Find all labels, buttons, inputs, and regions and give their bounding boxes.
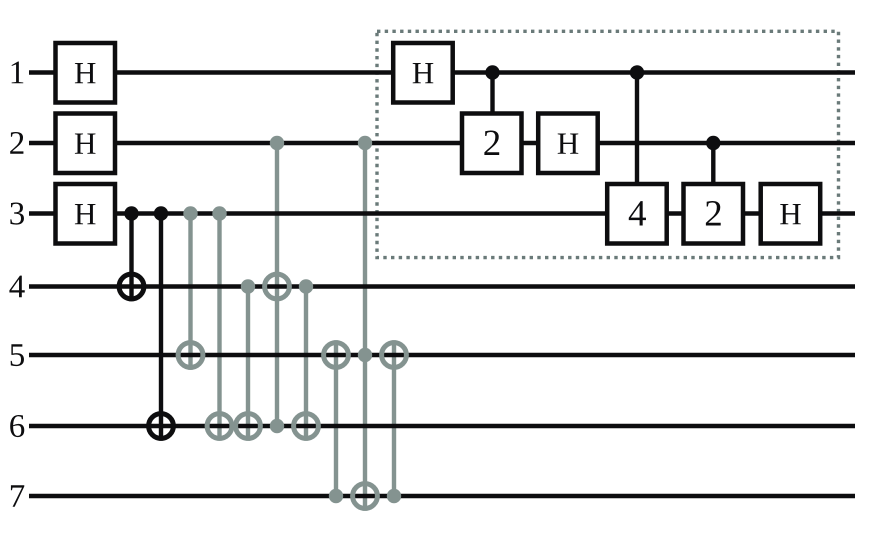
qubit wire 5 [29,353,855,357]
dotted box (inverse QFT block) [377,31,839,257]
gate H q1 left [56,43,116,103]
wire c5 vertical gray (q4-q6) [246,287,250,441]
cnot target gray q5 [178,343,203,368]
gate H q1 in box [393,43,453,103]
gate R4 q3 [607,184,667,244]
control dot gray q4 c5 [241,279,255,293]
qubit wire 6 [29,424,855,428]
label qubit 7 [11,485,24,507]
qubit wire 2 [29,141,855,145]
control dot gray q3 c4 [212,206,226,220]
control dot black q2 c13 [706,136,720,150]
control dot black q1 c11 [485,65,499,79]
cnot target gray q6 c4 [207,414,232,439]
label qubit 1 [12,62,24,84]
control dot gray q7 c10 [387,489,401,503]
wire c10 vertical gray (q5-q7) [392,340,396,496]
wire c2 vertical (CNOT q3-q6) [159,214,163,441]
qubit wire 7 [29,494,855,498]
wire c4 vertical gray (q3-q6) [217,214,221,441]
cnot target gray q7 c9 [353,484,378,509]
gate R2 q2 [462,114,522,174]
wire c8 vertical gray (q5-q7) [334,340,338,496]
cnot target gray q5 c10 [382,343,407,368]
control dot gray q6 c6 [270,419,284,433]
gate R2 q3 [684,184,744,244]
gate H q3 left [56,184,116,244]
label qubit 4 [9,276,24,298]
control dot gray q4 c7 [299,279,313,293]
wire c13 vertical (q2 control to R2 box) [711,143,715,182]
control dot gray q2 c9 [358,136,372,150]
wire c6 vertical gray (q2-q6) [275,143,279,426]
cnot target black q6 [149,414,174,439]
cnot target gray q6 c7 [294,414,319,439]
label qubit 2 [10,132,23,154]
wire c1 vertical (CNOT q3-q4) [129,214,133,302]
qubit wire 1 [29,70,855,74]
control dot gray q5 c9 [358,348,372,362]
qubit wire 4 [29,284,855,288]
wire c7 vertical gray (q4-q6) [304,287,308,441]
label qubit 3 [10,202,24,224]
gate H q2 in box [538,114,598,174]
wire c3 vertical gray (q3-q5) [188,214,192,370]
control dot black q1 c12 [630,65,644,79]
label qubit 6 [10,415,24,437]
cnot target black q4 [119,274,144,299]
control dot gray q7 c8 [329,489,343,503]
cnot target gray q6 c5 [236,414,261,439]
cnot target gray q4 c6 [265,274,290,299]
gate H q2 left [56,114,116,174]
control dot black q3 c1 [124,206,138,220]
control dot black q3 c2 [154,206,168,220]
gate H q3 right [761,184,821,244]
cnot target gray q5 c8 [324,343,349,368]
qubit wire 3 [29,211,855,215]
label qubit 5 [11,344,24,366]
wire c11 vertical (q1 control to R2 box) [490,73,494,113]
control dot gray q3 c3 [183,206,197,220]
wire c12 vertical (q1 control to R4 box) [635,73,639,183]
control dot gray q2 c6 [270,136,284,150]
wire c9 vertical gray (q2-q7) [363,143,367,511]
